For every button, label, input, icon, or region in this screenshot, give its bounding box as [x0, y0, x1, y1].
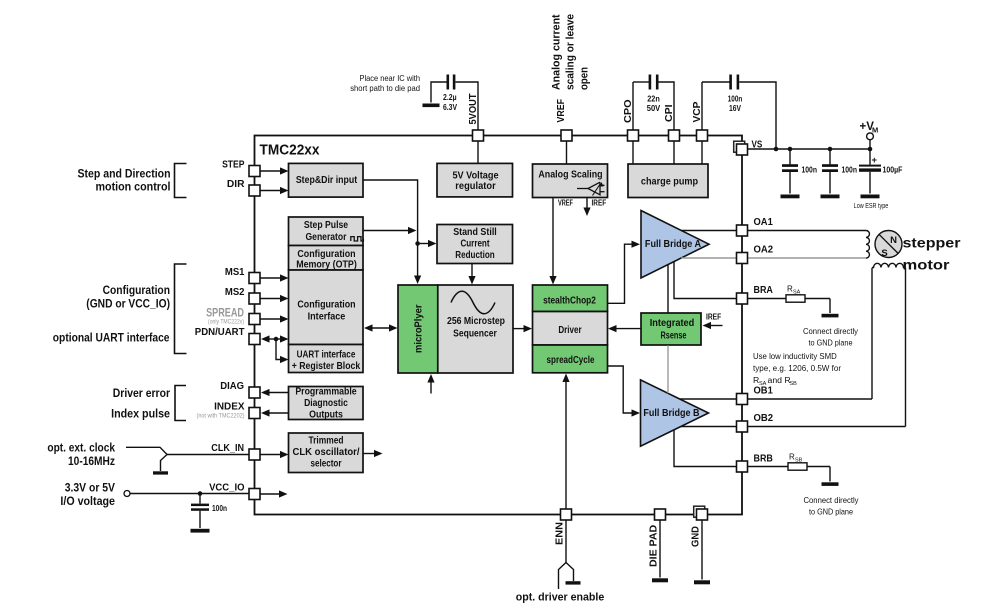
- pin VS: [734, 141, 745, 152]
- svg-text:10-16MHz: 10-16MHz: [68, 454, 115, 468]
- svg-text:Use low inductivity SMD: Use low inductivity SMD: [753, 351, 837, 361]
- terminal +VM: [869, 140, 871, 149]
- svg-text:VCP: VCP: [691, 102, 703, 123]
- svg-text:to GND plane: to GND plane: [809, 338, 853, 348]
- svg-text:microPlyer: microPlyer: [414, 304, 425, 353]
- svg-text:SB: SB: [795, 458, 803, 464]
- svg-text:opt. driver enable: opt. driver enable: [516, 592, 605, 604]
- svg-text:16V: 16V: [729, 104, 741, 113]
- wire VREF pin to Analog Scaling: [566, 141, 568, 164]
- wire OA1: [681, 230, 866, 232]
- wire Full Bridge A sense to Rsense: [667, 265, 669, 313]
- bracket configuration: [175, 264, 187, 354]
- svg-text:VS: VS: [752, 139, 763, 151]
- ground (C4): [781, 195, 800, 199]
- svg-text:SB: SB: [790, 381, 798, 387]
- ground (GND pin): [694, 580, 710, 584]
- junction VS-2: [788, 147, 793, 152]
- block Stand Still Current Reduction: [437, 225, 513, 264]
- svg-text:motor: motor: [903, 258, 951, 273]
- wire RSB to ground: [829, 467, 831, 482]
- DAC symbol: [577, 188, 588, 190]
- svg-text:charge pump: charge pump: [641, 177, 698, 188]
- op-amp Full Bridge A: [641, 211, 709, 279]
- wire DIE PAD to ground: [659, 520, 661, 578]
- svg-text:short path to die pad: short path to die pad: [350, 83, 420, 93]
- junction step net: [415, 241, 420, 246]
- wire winding B right: [905, 268, 907, 427]
- svg-text:ENN: ENN: [554, 522, 566, 545]
- wire OA2: [681, 257, 866, 259]
- svg-text:256 Microstep: 256 Microstep: [447, 316, 505, 327]
- svg-text:TMC22xx: TMC22xx: [260, 143, 320, 159]
- wire OB2: [681, 426, 906, 428]
- wire DIAG from block: [268, 392, 289, 394]
- svg-text:to GND plane: to GND plane: [809, 507, 853, 517]
- capacitor C5 100n: [829, 149, 831, 165]
- svg-text:spreadCycle: spreadCycle: [547, 355, 595, 366]
- svg-text:SPREAD: SPREAD: [206, 306, 244, 320]
- pulse icon: [351, 237, 364, 241]
- svg-text:BRB: BRB: [754, 453, 774, 465]
- wire winding B left: [871, 268, 873, 399]
- wire Rsense to Driver: [614, 328, 641, 330]
- wire MS1 to block: [261, 277, 282, 279]
- svg-text:Programmable: Programmable: [295, 386, 357, 397]
- wire Step Pulse Generator output: [363, 230, 409, 232]
- ground (C7): [191, 529, 210, 533]
- svg-text:(not with TMC2202): (not with TMC2202): [197, 412, 245, 419]
- svg-text:OB2: OB2: [754, 412, 774, 424]
- svg-text:Outputs: Outputs: [309, 409, 343, 420]
- pin DIE PAD: [655, 509, 666, 520]
- svg-text:MS1: MS1: [225, 266, 245, 278]
- wire VCP to charge pump: [701, 141, 703, 164]
- wire OB1: [680, 398, 872, 400]
- svg-text:VCC_IO: VCC_IO: [209, 482, 244, 494]
- block stealthChop2: [533, 285, 608, 312]
- wire Sequencer to Driver: [513, 328, 525, 330]
- svg-text:Place near IC with: Place near IC with: [360, 73, 421, 83]
- svg-text:VREF: VREF: [558, 199, 573, 208]
- svg-text:CPO: CPO: [622, 99, 634, 123]
- capacitor C4 100n: [789, 149, 791, 165]
- wire SPREAD to block: [261, 318, 282, 320]
- svg-text:STEP: STEP: [222, 158, 244, 170]
- ground (RSA): [822, 314, 839, 318]
- pin VREF: [561, 130, 572, 141]
- svg-text:Configuration: Configuration: [103, 283, 170, 297]
- capacitor C7 100n: [199, 494, 201, 504]
- svg-text:IREF: IREF: [592, 199, 607, 208]
- svg-text:Interface: Interface: [308, 312, 346, 323]
- svg-text:6.3V: 6.3V: [443, 103, 457, 112]
- wire microPlyer bottom stub: [430, 381, 432, 394]
- svg-text:Sequencer: Sequencer: [453, 329, 497, 340]
- svg-text:Driver: Driver: [558, 325, 581, 336]
- pin VCC_IO: [249, 489, 260, 500]
- wire PDN/UART to UART block: [276, 339, 281, 360]
- svg-text:Rsense: Rsense: [661, 331, 687, 342]
- svg-text:Full Bridge A: Full Bridge A: [645, 239, 701, 250]
- svg-text:MS2: MS2: [225, 286, 245, 298]
- ground (C5): [821, 195, 840, 199]
- sine icon: [451, 291, 495, 313]
- svg-text:S: S: [881, 248, 887, 259]
- pin OA2: [737, 253, 748, 264]
- junction VS-3: [828, 147, 833, 152]
- pin MS1: [249, 273, 260, 284]
- pin SPREAD: [249, 314, 260, 325]
- op-amp Full Bridge B: [641, 380, 709, 446]
- svg-text:Generator: Generator: [306, 232, 347, 243]
- svg-text:stepper: stepper: [903, 236, 962, 251]
- svg-text:Trimmed: Trimmed: [308, 436, 343, 447]
- svg-text:Analog Scaling: Analog Scaling: [538, 170, 602, 181]
- block 5V Voltage regulator: [437, 163, 513, 197]
- wire CLK_IN: [167, 454, 250, 456]
- block Analog Scaling: [533, 164, 608, 198]
- wire BRB: [674, 430, 737, 467]
- inductor winding B: [872, 263, 906, 267]
- svg-text:optional UART interface: optional UART interface: [53, 331, 170, 345]
- wire Analog Scaling IREF out: [586, 198, 588, 209]
- capacitor C2 22n 50V: [649, 75, 652, 90]
- wire VCC_IO: [130, 493, 250, 495]
- block spreadCycle: [533, 345, 608, 373]
- svg-text:stealthChop2: stealthChop2: [543, 296, 596, 307]
- wire BRA: [674, 262, 737, 299]
- ground (clock switch): [153, 471, 168, 474]
- capacitor C3 100n 16V: [729, 75, 732, 90]
- svg-text:100n: 100n: [728, 95, 743, 104]
- wire CLK oscillator output: [363, 453, 375, 455]
- block Configuration Interface: [289, 270, 364, 345]
- svg-text:I/O voltage: I/O voltage: [60, 494, 115, 508]
- svg-text:3.3V or 5V: 3.3V or 5V: [65, 481, 115, 495]
- svg-text:regulator: regulator: [455, 181, 495, 192]
- svg-text:SA: SA: [793, 290, 801, 296]
- pin DIR: [249, 185, 260, 196]
- svg-text:100n: 100n: [802, 166, 818, 175]
- svg-text:scaling or leave: scaling or leave: [565, 14, 577, 90]
- wire MS2 to block: [261, 298, 282, 300]
- svg-text:Index pulse: Index pulse: [111, 407, 170, 421]
- svg-text:selector: selector: [310, 458, 341, 469]
- svg-text:100µF: 100µF: [883, 166, 903, 175]
- pin 5VOUT: [473, 130, 484, 141]
- capacitor C6 100uF electrolytic: [869, 149, 871, 165]
- svg-text:N: N: [890, 235, 897, 246]
- svg-text:Connect directly: Connect directly: [803, 326, 859, 336]
- block Integrated Rsense: [641, 313, 701, 345]
- svg-text:5V Voltage: 5V Voltage: [452, 171, 498, 182]
- svg-text:motion control: motion control: [96, 179, 171, 193]
- svg-text:OA1: OA1: [754, 216, 773, 228]
- pin DIAG: [249, 387, 260, 398]
- svg-text:100n: 100n: [212, 504, 227, 513]
- pin VCP: [697, 130, 708, 141]
- wire DIR to block: [261, 190, 282, 192]
- junction VCC_IO: [198, 491, 203, 496]
- pin MS2: [249, 293, 260, 304]
- svg-text:Configuration: Configuration: [297, 299, 355, 310]
- svg-text:CLK oscillator/: CLK oscillator/: [293, 447, 360, 458]
- pin INDEX: [249, 408, 260, 419]
- wire Stand Still to Sequencer: [471, 264, 473, 278]
- svg-text:M: M: [872, 126, 878, 135]
- wire ENN to spreadCycle: [565, 380, 567, 509]
- wire 5VOUT pin to regulator: [477, 141, 479, 163]
- svg-text:type, e.g. 1206, 0.5W for: type, e.g. 1206, 0.5W for: [753, 363, 841, 373]
- wire CPO to charge pump: [632, 141, 634, 164]
- wire VCC_IO stub: [261, 493, 281, 495]
- pin STEP: [249, 166, 260, 177]
- block 256 Microstep Sequencer: [438, 285, 513, 373]
- wire Rsense to Full Bridge B sense: [667, 345, 669, 393]
- svg-text:Step and Direction: Step and Direction: [78, 166, 171, 180]
- svg-text:(GND or VCC_IO): (GND or VCC_IO): [86, 297, 170, 311]
- pin ENN: [561, 509, 572, 520]
- junction VS-4: [868, 147, 873, 152]
- pin BRA: [737, 293, 748, 304]
- svg-text:Memory (OTP): Memory (OTP): [296, 259, 357, 270]
- svg-text:UART interface: UART interface: [297, 350, 356, 361]
- svg-text:Analog current: Analog current: [551, 14, 563, 90]
- resistor RSB: [748, 466, 789, 468]
- svg-text:open: open: [579, 67, 591, 90]
- block Step&Dir input: [289, 163, 364, 197]
- pin OB1: [737, 394, 748, 405]
- pin CPI: [669, 130, 680, 141]
- wire C2 to CPI: [659, 82, 675, 131]
- block Step Pulse Generator: [289, 217, 364, 246]
- svg-text:Reduction: Reduction: [455, 250, 494, 261]
- svg-text:50V: 50V: [647, 104, 661, 113]
- bracket step/dir: [175, 164, 187, 198]
- svg-text:CLK_IN: CLK_IN: [211, 442, 244, 454]
- terminal VCC_IO input: [124, 491, 130, 497]
- svg-text:GND: GND: [690, 526, 702, 547]
- pin OB2: [737, 421, 748, 432]
- wire GND pin to ground: [701, 520, 703, 580]
- svg-text:+ Register Block: + Register Block: [292, 361, 361, 372]
- junction VS-1: [774, 147, 779, 152]
- wire ENN external: [565, 520, 567, 563]
- block Programmable Diagnostic Outputs: [289, 387, 364, 420]
- wire IREF into Rsense: [710, 325, 723, 327]
- pin GND: [694, 506, 705, 517]
- wire VCP up: [701, 82, 703, 131]
- wire VS rail: [748, 148, 871, 150]
- pin OA1: [737, 225, 748, 236]
- svg-text:100n: 100n: [842, 166, 858, 175]
- wire 5VOUT cap to pin: [456, 82, 479, 131]
- block Configuration Memory OTP: [289, 246, 364, 271]
- ground (2.2u cap): [423, 104, 440, 108]
- svg-text:OA2: OA2: [754, 244, 774, 256]
- capacitor C1 2.2u 6.3V: [447, 75, 450, 90]
- svg-text:BRA: BRA: [754, 284, 774, 296]
- wire 5VOUT cap left: [431, 82, 447, 103]
- wire to Stand Still block: [418, 243, 430, 245]
- IC boundary TMC22xx: [255, 136, 743, 515]
- wire CPO up: [632, 82, 634, 131]
- ground (DIE PAD): [652, 578, 668, 582]
- wire RSA to ground: [829, 299, 831, 314]
- svg-text:PDN/UART: PDN/UART: [195, 326, 245, 338]
- inductor winding A: [866, 231, 869, 259]
- pin PDN/UART: [249, 334, 260, 345]
- svg-text:Low ESR type: Low ESR type: [854, 203, 889, 210]
- enable plug symbol: [559, 563, 567, 590]
- svg-text:2.2µ: 2.2µ: [443, 93, 457, 102]
- bracket diagnostics: [175, 386, 186, 421]
- block charge pump: [628, 164, 708, 198]
- svg-text:IREF: IREF: [706, 313, 721, 322]
- svg-text:5VOUT: 5VOUT: [467, 93, 479, 125]
- wire INDEX from block: [268, 412, 289, 414]
- pin CPO: [628, 130, 639, 141]
- svg-text:VREF: VREF: [555, 99, 567, 123]
- svg-text:CPI: CPI: [663, 104, 675, 122]
- wire VCP to C3: [702, 81, 730, 83]
- block UART interface + Register Block: [289, 345, 364, 373]
- wire CPI to charge pump: [673, 141, 675, 164]
- pin CLK_IN: [249, 449, 260, 460]
- svg-text:+: +: [872, 155, 878, 166]
- svg-text:Diagnostic: Diagnostic: [304, 398, 348, 409]
- svg-text:opt. ext. clock: opt. ext. clock: [47, 441, 115, 455]
- svg-text:INDEX: INDEX: [214, 401, 244, 413]
- svg-text:22n: 22n: [647, 95, 660, 104]
- svg-text:and R: and R: [768, 375, 791, 385]
- svg-text:OB1: OB1: [754, 385, 773, 397]
- svg-text:Stand Still: Stand Still: [453, 227, 497, 238]
- svg-text:Step&Dir input: Step&Dir input: [296, 175, 358, 186]
- wire Analog Scaling VREF out: [552, 198, 554, 278]
- svg-text:Current: Current: [460, 239, 490, 250]
- svg-text:DIR: DIR: [227, 178, 245, 190]
- resistor RSA: [748, 298, 787, 300]
- svg-text:Configuration: Configuration: [297, 249, 355, 260]
- pin BRB: [737, 461, 748, 472]
- wire stealthChop2 to Full Bridge A: [608, 244, 633, 303]
- wire spreadCycle to Full Bridge B: [608, 366, 633, 413]
- svg-text:DIE PAD: DIE PAD: [648, 524, 660, 567]
- svg-text:Full Bridge B: Full Bridge B: [643, 408, 699, 419]
- svg-text:DIAG: DIAG: [220, 380, 244, 392]
- stepper motor symbol: [875, 231, 902, 258]
- block Trimmed CLK oscillator/selector: [289, 433, 364, 473]
- svg-text:Driver error: Driver error: [113, 386, 170, 400]
- wire Step&Dir to microPlyer: [363, 180, 418, 277]
- block microPlyer: [398, 285, 438, 373]
- wire STEP to block: [261, 170, 282, 172]
- svg-text:Integrated: Integrated: [650, 318, 695, 329]
- wire PDN/UART bidirectional: [268, 338, 283, 340]
- wire C3 to VS rail: [739, 82, 776, 149]
- ground (C6): [861, 195, 880, 199]
- junction PDN/UART: [274, 337, 279, 342]
- wire Config Interface to microPlyer bidirectional: [370, 327, 392, 329]
- svg-text:(only TMC222x): (only TMC222x): [208, 318, 244, 325]
- svg-text:Step Pulse: Step Pulse: [304, 220, 349, 231]
- wire CPO to C2: [633, 81, 649, 83]
- svg-text:Connect directly: Connect directly: [804, 495, 860, 505]
- wire CLK_IN to block: [261, 454, 282, 456]
- ground (RSB): [822, 482, 839, 486]
- clock switch: [126, 447, 167, 454]
- block Driver: [533, 312, 608, 346]
- ground (ENN): [566, 581, 581, 584]
